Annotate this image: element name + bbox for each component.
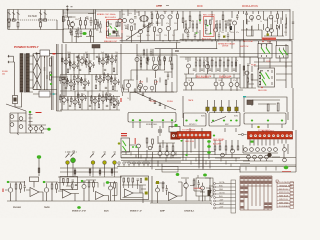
green contact s4a — [261, 73, 265, 80]
green dot drv3 — [196, 32, 198, 34]
resistor R11 — [95, 20, 97, 25]
wire switchbox drops — [133, 122, 172, 128]
wire extra right — [252, 66, 292, 80]
red link PS — [53, 53, 56, 55]
transistor QP17 — [93, 99, 97, 103]
trimmer row connects — [208, 111, 237, 113]
left circuit column — [240, 64, 252, 88]
wire mesh2 — [244, 24, 285, 41]
resistor R39 — [146, 58, 148, 63]
transistor Q37 — [214, 82, 218, 86]
speaker jack box — [244, 113, 286, 124]
transistor Q40 — [235, 83, 239, 87]
transistor Q53 — [221, 153, 225, 157]
mixer box outline — [137, 55, 177, 92]
dark block module — [92, 45, 100, 49]
transistor Q54 — [231, 149, 235, 153]
wire osc top — [63, 10, 96, 14]
teal tiny label — [243, 96, 246, 97]
transistor Q46 — [34, 127, 38, 131]
resistor RL3 — [225, 146, 227, 150]
resistor small — [89, 68, 91, 72]
capacitor C3 drop — [17, 10, 20, 21]
feedback box 2 — [60, 177, 78, 190]
wire filter bottom — [8, 29, 64, 31]
wire x93 vertical — [93, 10, 95, 43]
trimmer TR4 — [227, 107, 230, 111]
wire mesh — [137, 62, 172, 82]
resistor small — [86, 54, 88, 58]
regulator box B — [39, 91, 50, 97]
switch S1 mains — [13, 96, 18, 104]
transistor QP2 — [201, 186, 205, 190]
wire in box — [206, 25, 211, 35]
transistor QP8 — [69, 82, 73, 86]
capacitor CP1 — [198, 183, 201, 185]
green dot sw1 — [132, 119, 134, 121]
supply rails vertical — [52, 44, 67, 111]
resistor R1 — [8, 22, 10, 27]
green dot st2 — [43, 181, 46, 183]
wire switch to primary — [15, 93, 22, 108]
resistor — [70, 98, 72, 102]
capacitor C9 — [75, 29, 78, 36]
inductor L2 — [12, 19, 15, 21]
wire top rail second — [63, 10, 290, 12]
wire cols — [158, 143, 175, 158]
value labels — [63, 52, 118, 101]
transistor QP5 — [101, 60, 105, 64]
wire mesh hp — [121, 136, 181, 162]
wire box A leads — [37, 54, 64, 59]
transistor QB3 — [82, 184, 86, 188]
green dot sw2 — [139, 119, 141, 121]
resistor RE2 — [128, 178, 130, 182]
teal marker — [53, 93, 55, 95]
green contact k1a — [261, 48, 265, 54]
pa box — [196, 178, 213, 196]
resistor t — [185, 24, 187, 28]
resistor R20 — [147, 27, 149, 32]
transistor Q15 — [269, 15, 273, 19]
resistor — [59, 77, 61, 81]
resistor R2 — [17, 22, 19, 27]
conn row 1 — [214, 183, 216, 185]
green dot spk2 — [267, 120, 269, 122]
transistor Q31 — [126, 83, 130, 87]
ground bus bottom — [7, 201, 212, 203]
wire left vertical — [62, 29, 64, 43]
resistor RL4 — [231, 146, 233, 150]
power amp x180-215 y176-212 — [181, 178, 211, 201]
outer wire box — [244, 97, 287, 112]
resistor t — [216, 24, 218, 28]
bottom circle row — [138, 86, 142, 90]
green dot din2 — [195, 120, 197, 122]
wire bottom ps — [33, 89, 57, 92]
wire bottom mixer — [124, 80, 174, 92]
eq stage box x120-150 — [121, 176, 149, 203]
wire extras — [68, 14, 95, 37]
capacitor small — [105, 87, 107, 88]
transistor QP1 dark — [184, 183, 189, 188]
wire drops from y57 — [188, 57, 236, 62]
op-amp A2 — [63, 190, 72, 199]
green dot hp1 — [132, 146, 134, 148]
modulator section x120-180 top — [122, 6, 178, 43]
capacitor — [111, 75, 113, 81]
capacitor md1 — [143, 25, 145, 26]
lamp circled X — [158, 126, 162, 136]
resistor RB4 — [56, 184, 58, 189]
relay box K1 — [258, 44, 272, 59]
caps row — [193, 69, 195, 70]
cap circle row — [117, 162, 178, 172]
capacitor C2 drop — [12, 10, 15, 21]
resistor R8 — [68, 21, 70, 26]
legend boxes — [290, 182, 294, 185]
transistor QP15 — [73, 100, 77, 104]
resistor t — [229, 24, 231, 28]
maroon socket block — [171, 132, 181, 140]
transistor QB1 — [8, 188, 13, 193]
pot VR5 — [112, 154, 116, 176]
green dot st1 — [7, 181, 10, 183]
capacitor small — [69, 105, 71, 106]
green dot sw5 — [171, 119, 173, 121]
red underline out — [282, 171, 291, 173]
resistor — [110, 99, 112, 103]
record amp x183-240 y57-92 — [183, 57, 243, 91]
wire drops below — [190, 128, 236, 132]
wire R3 lead — [40, 21, 42, 29]
transistor Q17 — [245, 71, 249, 75]
resistor small — [95, 85, 97, 89]
transistor Q5 — [160, 15, 164, 19]
conn row 3 — [214, 190, 216, 192]
conn row 5 — [214, 197, 216, 199]
capacitor small — [76, 56, 78, 57]
resistor — [110, 78, 112, 82]
contacts S4 — [261, 70, 273, 85]
wire right vertical — [288, 88, 293, 130]
wire drops — [244, 10, 291, 41]
capacitor C14 — [205, 29, 208, 31]
bridge rectifier D1-D4 lattice — [33, 54, 41, 90]
input selector x0-60 y105-132 — [6, 104, 48, 133]
transistor Q49 — [148, 146, 152, 150]
wire — [86, 180, 96, 201]
mode switch long box — [128, 113, 176, 123]
wire cl — [244, 57, 250, 88]
olive trimmer top — [223, 36, 225, 38]
resistor RB5 — [63, 179, 65, 183]
wire filter left edge — [7, 10, 9, 30]
resistor small — [113, 104, 115, 108]
green blob row end — [47, 128, 50, 131]
wire verticals — [240, 41, 292, 88]
capacitor C23 — [159, 104, 162, 106]
green contact k2a — [279, 50, 283, 56]
resistor — [107, 56, 109, 60]
resistor col 3 — [172, 146, 174, 151]
capacitor t — [187, 32, 189, 39]
transistor Q39 — [229, 83, 233, 87]
green dot hp2 — [135, 146, 137, 148]
resistor — [69, 62, 71, 66]
green blob below bus — [77, 206, 81, 209]
transistor QP10 — [83, 81, 87, 85]
socket box left — [184, 113, 207, 126]
resistor R41 — [171, 64, 173, 69]
capacitor small — [104, 69, 106, 70]
resistor R52 — [99, 170, 101, 174]
wire — [49, 182, 58, 201]
capacitor C4 drop — [39, 10, 42, 21]
conn row 2 — [214, 186, 216, 188]
wire R1 lead — [8, 21, 10, 29]
wire top rail — [8, 9, 291, 11]
transistor QP1 — [64, 60, 68, 64]
wire cluster H — [10, 111, 44, 133]
resistor t — [225, 24, 227, 28]
green dot din4 — [235, 120, 237, 122]
resistor small — [105, 54, 107, 58]
capacitor — [118, 79, 120, 85]
resistor R4 — [50, 58, 52, 66]
wire eq inner drops — [123, 185, 147, 198]
conn row 8 — [214, 207, 216, 209]
resistor RL1 — [214, 146, 216, 150]
resistor osc x — [71, 31, 73, 35]
resistor small — [98, 104, 100, 108]
wire preamp rails — [60, 48, 120, 110]
capacitor small — [79, 69, 81, 70]
connector ladder x213-236 y180-213 — [210, 180, 236, 213]
green blob rl3 — [207, 151, 211, 154]
dark transistor blob — [267, 153, 271, 157]
capacitor — [113, 95, 115, 101]
wire — [194, 178, 211, 201]
connector box small — [169, 127, 180, 133]
resistor R6 — [62, 78, 65, 80]
bias oscillator red box — [107, 20, 123, 39]
capacitor x70 — [70, 28, 72, 35]
capacitor — [85, 58, 87, 64]
green dot tr1 — [212, 120, 214, 122]
capacitor mx — [150, 49, 152, 57]
capacitor — [77, 63, 79, 69]
oscillator section x63-120 — [62, 5, 98, 42]
capacitor — [98, 98, 100, 104]
green blob f1 — [176, 173, 180, 176]
legend list right — [276, 180, 294, 208]
green dot drv2 — [207, 25, 209, 27]
green dot rail 2 — [50, 83, 52, 85]
resistor R3 — [40, 22, 42, 27]
resistor mx2 — [143, 50, 145, 54]
terminal strip B red — [248, 132, 293, 140]
resistor R18 — [177, 14, 179, 19]
green dot din1 — [185, 120, 187, 122]
wire mesh — [184, 60, 240, 74]
pot VR4 — [102, 154, 106, 176]
pot knob VR4 — [103, 161, 107, 165]
transistor QP13 — [113, 80, 117, 84]
transistor Q7 — [138, 29, 142, 33]
wire feeds — [183, 96, 237, 118]
capacitor — [118, 100, 120, 106]
resistor RL5 — [237, 146, 239, 150]
wire mains down — [14, 56, 15, 95]
trimmer TR3 — [220, 107, 223, 111]
green dot sw4 — [162, 119, 164, 121]
transistor Q11 — [213, 28, 217, 32]
resistor R15 — [107, 31, 109, 36]
conn row 7 — [214, 204, 216, 206]
capacitor C15 — [245, 13, 248, 18]
junction dot — [36, 53, 37, 54]
transistor QB2 — [44, 188, 49, 193]
capacitor — [106, 96, 108, 102]
resistor R27 — [210, 20, 212, 25]
capacitor — [67, 78, 69, 84]
transistor row2 — [247, 155, 251, 159]
resistor R42 — [155, 80, 157, 85]
resistor RF1 — [162, 183, 164, 188]
transistor Q48 — [137, 144, 141, 148]
transistor Q16b — [270, 29, 274, 33]
pot VR3 — [90, 154, 94, 176]
transistor QP19 — [108, 96, 112, 100]
resistor R26 — [205, 20, 207, 25]
wire stage link bus — [58, 183, 117, 196]
resistor — [98, 95, 100, 99]
resistor small — [113, 68, 115, 72]
resistor R28 — [277, 14, 279, 19]
socket hole 1 — [172, 134, 175, 137]
wire — [63, 19, 98, 42]
transistor Q44 — [19, 125, 23, 129]
transistor QP9 — [76, 78, 80, 82]
pots row x60-120 y140-176 — [60, 152, 118, 176]
transistor QP3 — [80, 59, 84, 63]
red box driver — [204, 17, 215, 37]
wire rail y53.5 — [37, 53, 293, 55]
resistor RL2 — [219, 146, 221, 150]
resistor R51 — [89, 169, 91, 173]
green dot sw3 — [151, 119, 153, 121]
pot knob VR1 — [66, 161, 70, 165]
capacitor CF1 — [166, 189, 169, 191]
tape select staircase x128-176 y88-125 — [128, 88, 180, 132]
capacitor CB2 — [72, 180, 75, 182]
resistor R43 — [165, 80, 167, 85]
green dot rl4 — [185, 154, 187, 156]
resistor R9 — [80, 21, 82, 26]
olive dot above — [118, 142, 121, 144]
green dot st3 — [81, 180, 84, 182]
resistor R44 — [199, 60, 201, 66]
red tick hp — [134, 138, 137, 144]
capacitor C12 — [125, 27, 128, 29]
transistor Q6 — [168, 15, 172, 19]
wire — [181, 178, 194, 201]
resistor osc y — [97, 22, 99, 26]
capacitor C20 — [142, 94, 145, 96]
wire — [155, 181, 167, 195]
transistor QO2 — [283, 158, 287, 162]
transistor Q52 — [171, 152, 175, 156]
conn labels — [219, 181, 225, 209]
resistor — [105, 94, 107, 98]
capacitor C11 — [134, 17, 137, 19]
op-amp A3 — [96, 192, 104, 200]
green contact k1b — [266, 48, 270, 54]
green blob connector — [174, 124, 177, 127]
transistor QP4 — [88, 63, 92, 67]
capacitor t — [227, 32, 229, 39]
trimmer TR1 — [206, 107, 209, 111]
switch area x236-300 y40-92 — [240, 41, 292, 88]
wire — [177, 182, 182, 196]
playback chain bottom y176-212 — [5, 177, 212, 204]
wire — [108, 181, 117, 201]
olive square eq1 — [145, 178, 148, 181]
relay box K2 — [276, 46, 288, 59]
resistor R24 — [199, 15, 201, 20]
resistor RB2 — [20, 184, 22, 189]
resistor — [59, 96, 61, 100]
red tick left — [121, 98, 122, 102]
resistor — [90, 97, 92, 101]
driver section x180-240 top — [182, 11, 238, 41]
green blob rl1 — [207, 140, 211, 143]
green dot oscillator — [82, 32, 86, 35]
resistor R50 — [74, 170, 76, 174]
legend spine — [276, 181, 278, 208]
capacitor C8 — [90, 17, 93, 26]
resistor — [98, 58, 100, 62]
green blob out — [284, 166, 289, 170]
wire opamp2 — [58, 191, 79, 201]
transistor Q30 — [135, 57, 139, 61]
trimmer TR5 — [235, 107, 238, 111]
transistor QP6 — [110, 58, 114, 62]
transistor QP16 — [80, 96, 84, 100]
olive sq above bar — [267, 34, 269, 36]
wire mid rail y40.5 — [120, 40, 292, 41]
final stage x152-180 — [152, 176, 182, 203]
pot knob VR2 green — [71, 158, 76, 163]
capacitor — [115, 57, 117, 63]
transistor Q1 — [70, 22, 74, 26]
transistor Q12 — [232, 21, 236, 25]
green dot tr2 — [230, 120, 232, 122]
capacitor — [81, 77, 83, 83]
resistor md2 — [149, 23, 151, 27]
dashed gang line — [65, 151, 77, 153]
capacitor osc x — [80, 29, 82, 36]
mains filter section — [8, 10, 65, 43]
inductor L4 — [44, 19, 47, 21]
transistor Q35 — [184, 82, 188, 86]
wire in — [5, 182, 13, 201]
red equals mark — [121, 133, 127, 134]
wire lower mesh — [122, 30, 178, 43]
red dash selector — [36, 112, 42, 113]
wire x63 junction drop — [62, 10, 64, 43]
